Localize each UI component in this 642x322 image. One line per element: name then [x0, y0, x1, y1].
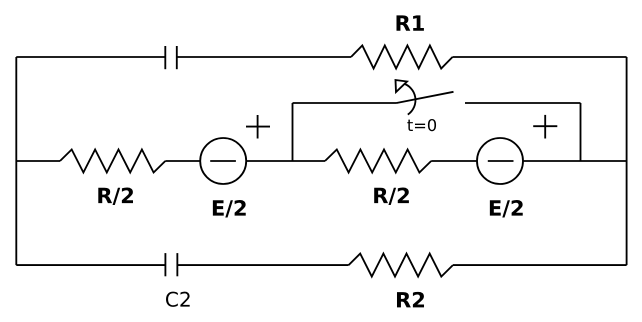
- wire R/2 to source (right): [431, 160, 477, 162]
- label R1: [396, 15, 423, 30]
- source E/2 (left) plus mark: [246, 115, 270, 139]
- wire source to switch node: [246, 160, 325, 162]
- wire switch branch right vertical: [580, 103, 582, 161]
- wire switch branch left vertical: [292, 103, 294, 161]
- wire middle-left segment: [16, 160, 60, 162]
- wire bottom middle segment: [177, 264, 348, 266]
- resistor R1: [351, 46, 453, 69]
- label R/2 (left): [98, 188, 133, 206]
- label R/2 (right): [374, 188, 409, 206]
- wire switch branch left horizontal: [293, 102, 397, 104]
- wire bottom-left segment: [16, 264, 165, 266]
- label E/2 (left): [213, 200, 246, 218]
- wire right rail: [626, 57, 628, 265]
- source E/2 (left) minus mark: [210, 160, 236, 162]
- switch S1 motion arc: [403, 83, 416, 114]
- source E/2 (right) plus mark: [533, 115, 557, 139]
- resistor R2: [349, 254, 453, 277]
- wire R/2 to source (left): [165, 160, 200, 162]
- label E/2 (right): [490, 200, 523, 218]
- wire top-right segment: [453, 56, 627, 58]
- wire top middle segment: [177, 56, 351, 58]
- wire bottom-right segment: [453, 264, 627, 266]
- capacitor C2: [165, 253, 177, 276]
- wire switch branch right horizontal: [465, 102, 581, 104]
- source E/2 (left) circle: [200, 138, 246, 184]
- wire left rail: [15, 57, 17, 265]
- label t=0: [407, 119, 436, 131]
- source E/2 (right) minus mark: [488, 160, 514, 162]
- capacitor C1 (top, unlabeled): [165, 46, 177, 69]
- resistor R/2 (right): [325, 150, 431, 173]
- resistor R/2 (left): [60, 150, 165, 173]
- switch S1 arrowhead: [396, 80, 408, 92]
- wire source to right rail: [523, 160, 627, 162]
- source E/2 (right) circle: [477, 138, 523, 184]
- switch S1 blade: [397, 92, 454, 103]
- label R2: [397, 292, 424, 308]
- label C2: [166, 292, 190, 307]
- wire top-left segment: [16, 56, 165, 58]
